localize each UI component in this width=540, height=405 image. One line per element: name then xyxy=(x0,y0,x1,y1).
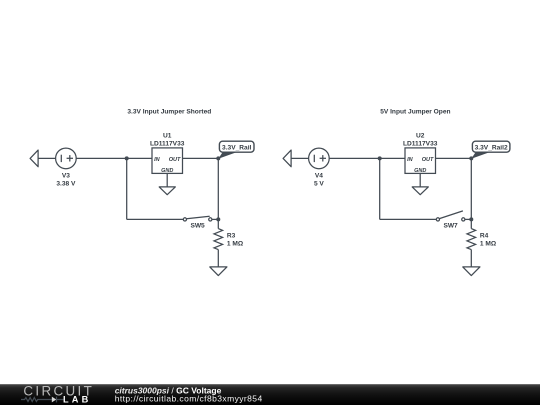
schematic title: 3.3V Input Jumper Shorted xyxy=(127,108,211,115)
wire xyxy=(470,158,472,228)
svg-text:SW5: SW5 xyxy=(190,222,205,229)
wire xyxy=(126,158,128,219)
wire xyxy=(217,250,219,267)
junction (output node) xyxy=(216,156,220,160)
svg-text:SW7: SW7 xyxy=(443,222,458,229)
ground (below resistor) xyxy=(210,267,227,276)
svg-text:1 MΩ: 1 MΩ xyxy=(227,240,244,247)
svg-text:OUT: OUT xyxy=(169,157,181,163)
svg-text:R4: R4 xyxy=(480,232,489,239)
junction (input node) xyxy=(378,156,382,160)
ground (rotated, input reference) xyxy=(30,150,38,167)
switch SW7 xyxy=(436,211,465,229)
wire (GND pin) xyxy=(419,173,421,187)
wire xyxy=(212,218,218,220)
svg-text:GND: GND xyxy=(161,168,173,174)
wire xyxy=(465,218,471,220)
svg-text:5 V: 5 V xyxy=(314,180,324,187)
ground (regulator GND) xyxy=(159,187,175,195)
svg-text:U1: U1 xyxy=(163,133,172,140)
wire xyxy=(217,158,219,228)
regulator U1 LD1117V33 xyxy=(150,133,185,175)
wire xyxy=(470,250,472,267)
ground (regulator GND) xyxy=(412,187,428,195)
svg-text:5V Input Jumper Open: 5V Input Jumper Open xyxy=(380,108,450,115)
ground (below resistor) xyxy=(463,267,480,276)
CircuitLab logo: resistor-diode squiggle xyxy=(21,397,64,403)
wire xyxy=(380,218,437,220)
svg-text:GND: GND xyxy=(414,168,426,174)
resistor R3 (1 M&#937;) xyxy=(214,229,244,250)
svg-text:R3: R3 xyxy=(227,232,236,239)
junction (input node) xyxy=(125,156,129,160)
node 3.3V_Rail2 xyxy=(471,141,510,159)
junction (switch/resistor node) xyxy=(216,217,220,221)
svg-text:LAB: LAB xyxy=(63,395,91,405)
wire (OUT) xyxy=(183,157,219,159)
schematic title: 5V Input Jumper Open xyxy=(380,108,450,115)
voltage source V4 (5 V) xyxy=(309,148,330,187)
wire xyxy=(329,157,405,159)
ground (rotated, input reference) xyxy=(283,150,291,167)
junction (switch/resistor node) xyxy=(469,217,473,221)
svg-text:V4: V4 xyxy=(315,172,323,179)
svg-text:http://circuitlab.com/cf8b3xmy: http://circuitlab.com/cf8b3xmyyr854 xyxy=(115,394,263,404)
svg-text:3.3V Input Jumper Shorted: 3.3V Input Jumper Shorted xyxy=(127,108,211,115)
resistor R4 (1 M&#937;) xyxy=(467,229,497,250)
wire xyxy=(127,218,184,220)
svg-text:3.38 V: 3.38 V xyxy=(56,180,76,187)
svg-text:LD1117V33: LD1117V33 xyxy=(150,140,185,147)
node 3.3V_Rail xyxy=(218,141,254,159)
wire xyxy=(291,157,309,159)
footer url line xyxy=(115,394,263,404)
wire xyxy=(379,158,381,219)
svg-text:1 MΩ: 1 MΩ xyxy=(480,240,497,247)
wire xyxy=(76,157,152,159)
voltage source V3 (3.38 V) xyxy=(56,148,77,187)
svg-text:3.3V_Rail: 3.3V_Rail xyxy=(222,144,251,151)
footer credit line xyxy=(115,385,222,395)
wire (OUT) xyxy=(436,157,472,159)
svg-text:V3: V3 xyxy=(62,172,70,179)
CircuitLab logo: CIRCUIT wordmark xyxy=(23,384,94,399)
junction (output node) xyxy=(469,156,473,160)
svg-text:3.3V_Rail2: 3.3V_Rail2 xyxy=(475,144,508,151)
switch SW5 xyxy=(183,216,212,229)
regulator U2 LD1117V33 xyxy=(403,133,438,175)
wire xyxy=(38,157,56,159)
CircuitLab logo: LAB wordmark xyxy=(63,395,91,405)
svg-text:OUT: OUT xyxy=(422,157,434,163)
svg-text:LD1117V33: LD1117V33 xyxy=(403,140,438,147)
wire (GND pin) xyxy=(166,173,168,187)
svg-text:U2: U2 xyxy=(416,133,425,140)
